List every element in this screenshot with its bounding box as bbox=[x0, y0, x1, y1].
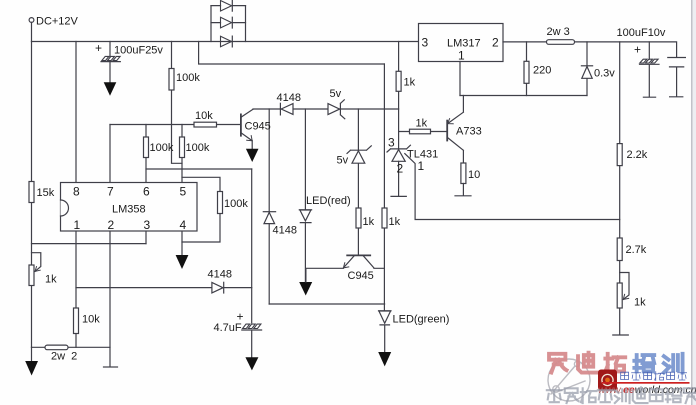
ground arrow LED green bbox=[378, 352, 391, 366]
capacitor 4.7uF column bbox=[251, 169, 253, 323]
svg-text:1k: 1k bbox=[404, 77, 416, 89]
resistor 100k upper bbox=[169, 69, 174, 91]
svg-text:1: 1 bbox=[418, 159, 425, 173]
wire line B pin5 to 100k loop bbox=[182, 177, 220, 242]
wire LM358 pin1 drop bbox=[75, 231, 77, 347]
ground arrow left bbox=[31, 347, 33, 361]
diode 4148 bottom bbox=[223, 282, 225, 293]
svg-text:1k: 1k bbox=[45, 274, 57, 286]
resistor 2.2k bbox=[617, 144, 622, 166]
svg-text:7: 7 bbox=[107, 185, 114, 199]
ground arrow 4.7uF bbox=[245, 357, 258, 370]
watermark red underline bbox=[602, 382, 690, 384]
svg-text:6: 6 bbox=[143, 185, 150, 199]
svg-text:8: 8 bbox=[73, 185, 80, 199]
svg-text:3: 3 bbox=[388, 136, 395, 150]
svg-text:2: 2 bbox=[108, 218, 115, 232]
svg-text:2w 3: 2w 3 bbox=[547, 26, 570, 38]
svg-text:1: 1 bbox=[458, 49, 465, 63]
ground arrow LED red / C945 emitter bbox=[299, 282, 312, 296]
wire 100k column from rail bbox=[172, 42, 183, 164]
svg-text:LED(green): LED(green) bbox=[393, 314, 450, 326]
resistor 2w 2 bbox=[45, 345, 68, 350]
wire LM358 pin4 drop bbox=[181, 231, 183, 255]
op-amp LM358 box bbox=[61, 183, 198, 232]
LED green bbox=[379, 310, 392, 312]
diode D2 bbox=[211, 17, 246, 28]
zener 5v vertical column bbox=[357, 109, 359, 255]
resistor 10k bottom bbox=[74, 308, 79, 334]
zener 5v horizontal on bus bbox=[328, 104, 340, 115]
wire adjust line bbox=[460, 95, 587, 97]
svg-text:100uF10v: 100uF10v bbox=[617, 27, 666, 39]
resistor 1k below zener bbox=[356, 208, 361, 228]
svg-text:100k: 100k bbox=[176, 72, 200, 84]
wire LM317 adj drop bbox=[459, 62, 461, 96]
resistor 220 bbox=[526, 42, 528, 96]
wire LM358 pin5 column bbox=[181, 125, 183, 183]
wire 4148 diode line from pin1 bbox=[76, 287, 252, 289]
svg-text:+: + bbox=[634, 43, 641, 57]
diode D3 bbox=[231, 36, 233, 47]
wire DC input drop bbox=[31, 22, 33, 41]
wire LM358 pin3 drop bbox=[145, 231, 147, 244]
svg-text:100uF25v: 100uF25v bbox=[114, 45, 163, 57]
svg-text:15k: 15k bbox=[37, 187, 55, 199]
ground arrow pin4 bbox=[176, 255, 189, 269]
watermark text row gray 射频和天线设计专家 bbox=[547, 387, 696, 403]
svg-text:220: 220 bbox=[533, 65, 551, 77]
svg-text:10k: 10k bbox=[82, 314, 100, 326]
terminal DC+12V bbox=[29, 18, 34, 23]
svg-text:2: 2 bbox=[492, 36, 499, 50]
resistor 1k horizontal to A733 base bbox=[399, 131, 447, 133]
svg-text:DC+12V: DC+12V bbox=[36, 16, 79, 28]
LED red column bbox=[304, 109, 306, 210]
svg-text:4.7uF: 4.7uF bbox=[214, 322, 242, 334]
svg-text:2.2k: 2.2k bbox=[627, 149, 648, 161]
wire +12V rail bbox=[32, 41, 419, 43]
regulator LM317 box bbox=[419, 24, 504, 62]
svg-text:2.7k: 2.7k bbox=[626, 244, 647, 256]
svg-text:1k: 1k bbox=[363, 216, 375, 228]
diode 4148 horizontal on bus bbox=[279, 103, 281, 115]
wire zener bus bbox=[253, 108, 399, 110]
svg-text:5: 5 bbox=[180, 185, 187, 199]
watermark text eeworld blue small bbox=[621, 372, 687, 381]
watermark logo red square bbox=[598, 370, 617, 391]
svg-text:1k: 1k bbox=[389, 216, 401, 228]
svg-text:10k: 10k bbox=[195, 110, 213, 122]
resistor 2w 3 bbox=[547, 40, 575, 45]
svg-text:4148: 4148 bbox=[208, 269, 232, 281]
wire 2w2 bus bbox=[32, 346, 111, 348]
svg-text:1k: 1k bbox=[634, 297, 646, 309]
capacitor right bbox=[668, 58, 686, 97]
diode 0.3v bbox=[586, 42, 588, 96]
wire 10k bus to C945 base bbox=[110, 124, 241, 126]
resistor 100k pin6 bbox=[144, 137, 149, 158]
diode stack right bus bbox=[245, 6, 247, 42]
potentiometer 1k right bbox=[617, 283, 622, 308]
wire bus from rail to long column bbox=[199, 42, 385, 65]
potentiometer 1k left bbox=[29, 265, 34, 286]
wire long column x384 bbox=[383, 64, 385, 311]
svg-text:100k: 100k bbox=[224, 198, 248, 210]
diode stack left bus bbox=[210, 6, 212, 42]
svg-text:LM358: LM358 bbox=[112, 204, 146, 216]
ground arrow 100uF25v bbox=[104, 82, 117, 96]
ground tick pin2 bbox=[104, 366, 118, 368]
transistor C945 second bbox=[347, 254, 370, 256]
svg-text:2: 2 bbox=[397, 162, 404, 176]
resistor 10k top bbox=[194, 122, 217, 127]
svg-text:+: + bbox=[95, 41, 102, 55]
svg-text:1: 1 bbox=[74, 218, 81, 232]
TL431 bbox=[387, 145, 410, 152]
wire bottom bus pot to pin3 bbox=[32, 243, 147, 245]
transistor C945 first bbox=[240, 114, 242, 135]
resistor 2.7k bbox=[617, 238, 622, 261]
svg-text:A733: A733 bbox=[456, 126, 482, 138]
resistor 100k pin5 bbox=[180, 137, 185, 158]
svg-text:LED(red): LED(red) bbox=[306, 195, 351, 207]
svg-text:4148: 4148 bbox=[277, 92, 301, 104]
resistor 15k bbox=[29, 182, 34, 203]
wire output line bbox=[503, 42, 677, 57]
capacitor 100uF25v bbox=[109, 42, 111, 58]
svg-text:3: 3 bbox=[422, 36, 429, 50]
watermark text 易迪拓 pink bbox=[549, 353, 625, 373]
svg-text:C945: C945 bbox=[245, 121, 271, 133]
diode D1 bbox=[211, 0, 246, 11]
wire LM358 pin7 riser bbox=[109, 125, 111, 183]
resistor 10 bbox=[461, 163, 466, 184]
wire LM358 pin2 drop bbox=[109, 231, 111, 367]
ground tick right column bbox=[613, 334, 629, 336]
diode 4148 vertical column bbox=[268, 109, 270, 304]
svg-text:5v: 5v bbox=[330, 88, 342, 100]
transistor A733 bbox=[446, 121, 448, 141]
svg-text:2w 2: 2w 2 bbox=[51, 351, 77, 363]
wire bottom bus bbox=[269, 303, 384, 305]
svg-text:100k: 100k bbox=[186, 142, 210, 154]
wire LM358 pin6 column bbox=[145, 125, 147, 183]
svg-text:TL431: TL431 bbox=[407, 149, 438, 161]
wire line A pin6 to cap column bbox=[146, 168, 252, 170]
wire LM358 pin8 riser bbox=[75, 42, 77, 183]
svg-text:C945: C945 bbox=[348, 270, 374, 282]
svg-text:100k: 100k bbox=[150, 142, 174, 154]
watermark logo circle gray bbox=[548, 359, 590, 401]
svg-text:4148: 4148 bbox=[273, 225, 297, 237]
right divider column bbox=[619, 42, 621, 335]
watermark text 培训 blue bbox=[634, 354, 682, 373]
svg-text:4: 4 bbox=[180, 218, 187, 232]
resistor 1k top bbox=[396, 71, 401, 91]
TL431 column with 1k bbox=[398, 42, 400, 149]
svg-text:0.3v: 0.3v bbox=[594, 68, 615, 80]
capacitor 100uF10v bbox=[648, 42, 650, 59]
svg-text:10: 10 bbox=[468, 169, 480, 181]
svg-text:5v: 5v bbox=[337, 155, 349, 167]
svg-text:1k: 1k bbox=[416, 118, 428, 130]
resistor 1k on long column bbox=[382, 208, 387, 228]
ground arrow C945 emitter bbox=[246, 149, 259, 162]
svg-text:3: 3 bbox=[144, 218, 151, 232]
wire TL431 ref to divider bbox=[405, 154, 620, 220]
svg-text:LM317: LM317 bbox=[447, 38, 481, 50]
wire left column bbox=[31, 42, 33, 348]
resistor 100k loop bbox=[218, 192, 223, 214]
